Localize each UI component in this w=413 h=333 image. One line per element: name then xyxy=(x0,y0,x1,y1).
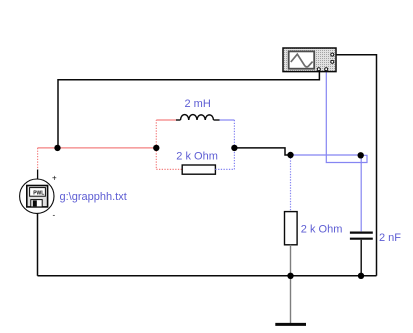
wire blue dashed resistor R1 to right corner xyxy=(215,168,234,170)
wire red dashed down to source + xyxy=(37,148,39,170)
wire black stub to source + pin xyxy=(37,170,39,180)
svg-text:2 k Ohm: 2 k Ohm xyxy=(301,224,343,236)
wire blue node E down to capacitor C1 xyxy=(360,155,362,231)
node A junction xyxy=(54,145,60,151)
resistor R1 2 k Ohm (horizontal) xyxy=(182,165,215,174)
oscilloscope U1 xyxy=(283,48,336,72)
node F junction (bottom left) xyxy=(287,273,293,279)
svg-text:2 nF: 2 nF xyxy=(379,232,401,244)
wire blue dashed right corner down to node C xyxy=(233,120,235,148)
wire blue dashed right corner up to node C xyxy=(233,148,235,170)
svg-text:+: + xyxy=(52,174,57,183)
wire red node A to source + (horizontal) xyxy=(38,147,58,149)
wire gray resistor R2 to bottom rail xyxy=(290,245,292,276)
wire red node A to node B xyxy=(58,147,157,149)
node C junction xyxy=(231,145,237,151)
wire source - down to bottom rail xyxy=(37,213,39,276)
node E junction xyxy=(358,152,364,158)
wire gray ground stem xyxy=(290,276,292,323)
wire red dashed up-left of L1/R1 parallel block xyxy=(155,120,157,148)
svg-text:2 mH: 2 mH xyxy=(185,98,211,110)
wire right side from scope top terminal down to bottom rail xyxy=(336,55,377,276)
wire blue from inductor to right corner xyxy=(220,119,235,121)
svg-text:2 k Ohm: 2 k Ohm xyxy=(176,151,218,163)
capacitor C1 xyxy=(350,233,373,239)
wire red to inductor xyxy=(156,119,176,121)
inductor L1 xyxy=(176,115,220,120)
wire red dashed to resistor R1 xyxy=(156,168,182,170)
node G junction (bottom right) xyxy=(358,273,364,279)
wire top loop from node A to scope bottom-left terminal xyxy=(58,70,319,149)
scope terminal bottom-left xyxy=(317,68,320,71)
wire black node C to node D with jog xyxy=(234,148,290,155)
ground xyxy=(275,323,306,326)
scope terminal right-bottom xyxy=(331,60,334,63)
node D junction xyxy=(287,152,293,158)
node B junction xyxy=(153,145,159,151)
scope terminal bottom-right xyxy=(325,68,328,71)
wire bottom rail xyxy=(38,275,377,277)
wire blue dashed node D down to resistor R2 xyxy=(290,155,292,212)
wire red dashed node B down to resistor branch xyxy=(155,148,157,170)
resistor R2 2 k Ohm (vertical) xyxy=(285,212,298,245)
source V1 PWL file source xyxy=(20,174,57,220)
svg-text:PWL: PWL xyxy=(33,190,44,196)
wire black capacitor to bottom rail xyxy=(360,240,362,276)
svg-text:g:\grapphh.txt: g:\grapphh.txt xyxy=(60,191,127,203)
wire blue node D to node E xyxy=(291,154,361,156)
wire blue scope probe: bottom-right terminal down, jog to node E xyxy=(326,72,367,163)
svg-text:-: - xyxy=(53,211,56,220)
scope terminal right-top xyxy=(331,53,334,56)
